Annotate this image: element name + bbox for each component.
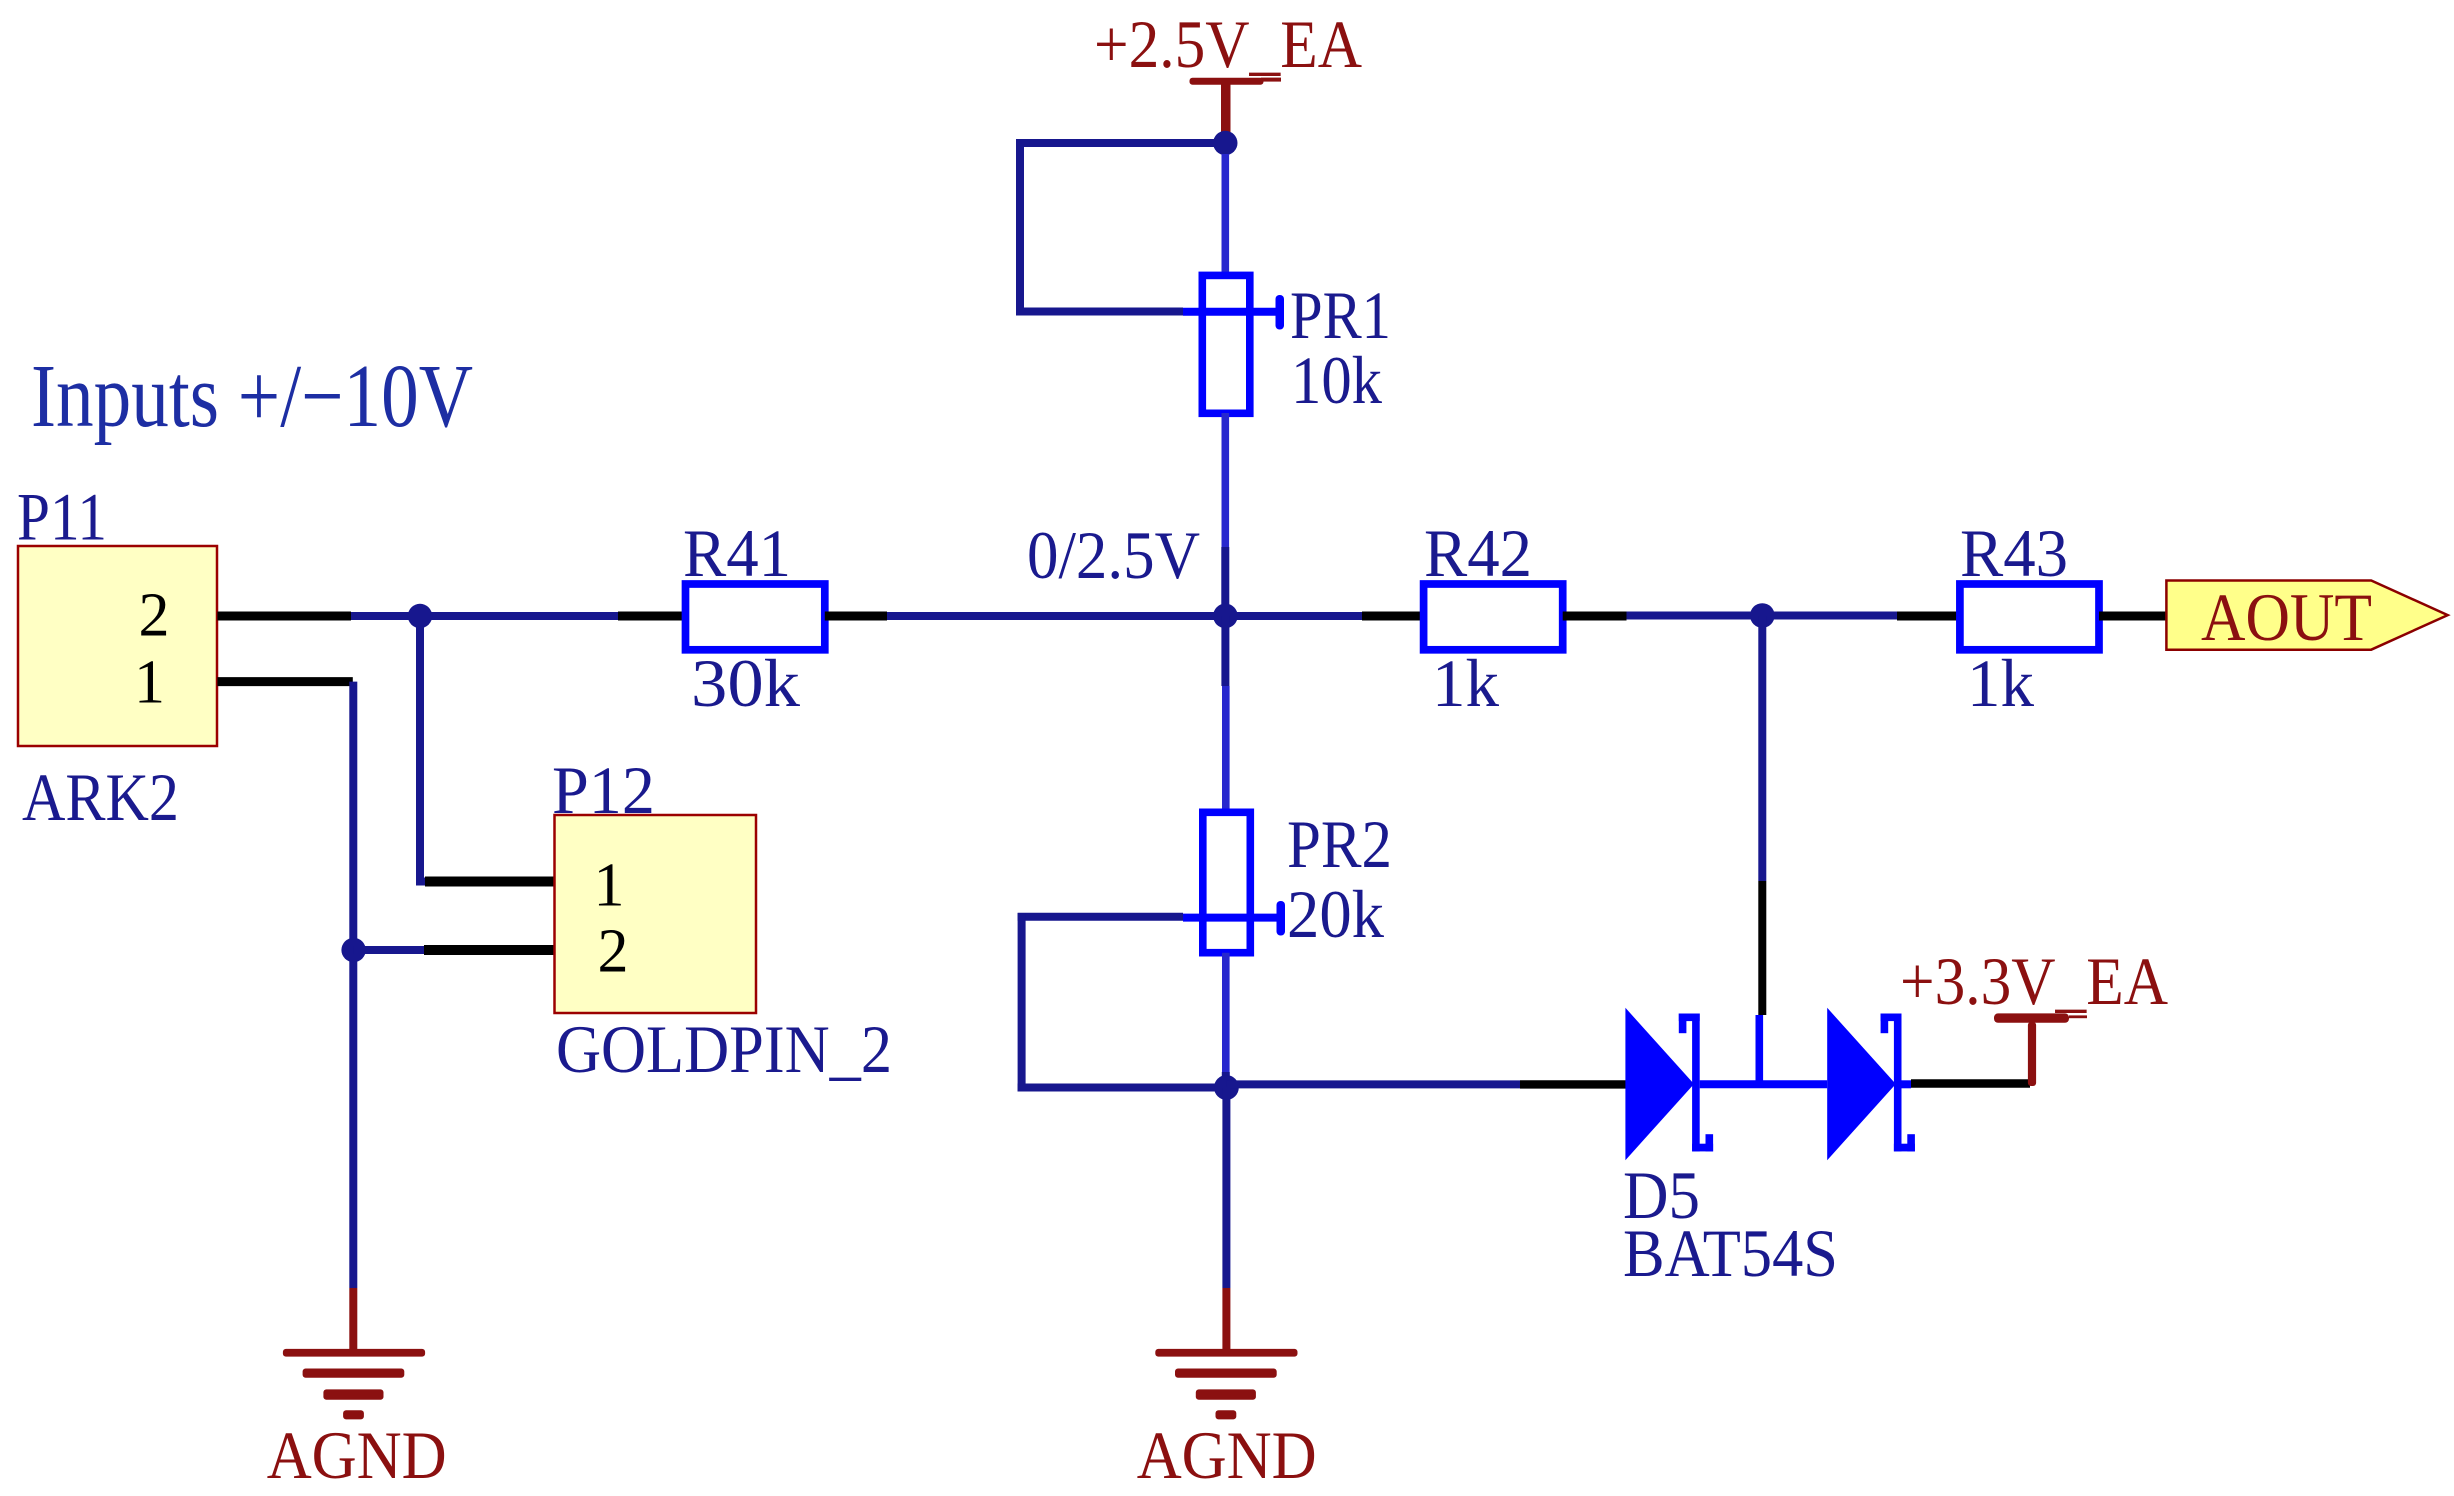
svg-text:P11: P11 <box>17 479 107 555</box>
P12 pin 2 stub <box>424 945 556 955</box>
wire wiper left <box>1018 913 1183 921</box>
junction top node <box>1213 131 1237 155</box>
potentiometer PR2 body <box>1203 812 1251 952</box>
svg-text:1: 1 <box>594 852 625 920</box>
svg-text:2: 2 <box>598 918 629 986</box>
wire PR1 to center node <box>1221 547 1229 616</box>
power +3.3V_EA bar symbol <box>1994 1013 2087 1086</box>
junction node B <box>341 938 365 962</box>
wire node C to R43 <box>1762 612 1897 620</box>
wire node A down <box>416 616 424 882</box>
ground AGND center symbol <box>1155 1288 1297 1419</box>
P11 pin 2 stub <box>217 612 351 621</box>
PR1 pin 2 (bottom) <box>1222 413 1230 547</box>
R43 pin stub left <box>1897 612 1961 621</box>
wire P11 pin2 to node A <box>351 612 618 620</box>
PR2 wiper <box>1183 901 1285 936</box>
P12 pin 1 stub <box>425 877 556 887</box>
D5 anode pin stub <box>1520 1080 1626 1088</box>
resistor R41 body <box>686 584 825 650</box>
wire node A to P12 pin1 <box>416 878 426 886</box>
wire center node down <box>1221 616 1229 686</box>
junction node A <box>408 604 432 628</box>
svg-text:AOUT: AOUT <box>2201 579 2372 655</box>
svg-text:30k: 30k <box>691 645 800 721</box>
diode D5 second element <box>1827 1008 1915 1160</box>
svg-text:R43: R43 <box>1960 515 2068 591</box>
svg-text:PR2: PR2 <box>1287 806 1392 882</box>
svg-text:+2.5V_EA: +2.5V_EA <box>1094 6 1362 82</box>
R42 pin stub left <box>1362 612 1425 621</box>
connector P12 body <box>555 815 757 1013</box>
svg-text:R42: R42 <box>1424 515 1532 591</box>
wire R42 to node C <box>1627 612 1764 620</box>
svg-text:0/2.5V: 0/2.5V <box>1027 517 1200 593</box>
PR2 pin 2 (bottom) <box>1222 953 1230 1072</box>
wire D5 to +3.3V_EA <box>1911 1079 2030 1087</box>
svg-text:1k: 1k <box>1967 645 2034 721</box>
wire wiper loop bottom <box>1018 1084 1227 1092</box>
svg-text:1: 1 <box>134 649 165 717</box>
svg-text:1k: 1k <box>1432 645 1499 721</box>
wire loop top horizontal <box>1016 139 1225 147</box>
PR1 wiper <box>1183 295 1284 330</box>
PR1 pin 1 (top) <box>1222 154 1230 276</box>
resistor R43 body <box>1960 584 2099 650</box>
junction node C <box>1750 603 1775 628</box>
wire node B to P12 pin2 <box>354 946 425 954</box>
diode D5 first element <box>1625 1008 1713 1160</box>
R43 pin stub right <box>2099 612 2167 621</box>
wire wiper loop vertical <box>1018 913 1026 1092</box>
ground AGND left symbol <box>283 1288 425 1419</box>
wire R41 to center node <box>887 612 1226 620</box>
wire loop left vertical <box>1016 139 1024 316</box>
connector P11 body <box>18 546 217 746</box>
svg-text:2: 2 <box>139 582 170 650</box>
potentiometer PR1 body <box>1202 275 1250 413</box>
svg-text:AGND: AGND <box>267 1417 447 1493</box>
wire node C down to D5 middle <box>1759 616 1762 1085</box>
resistor R42 body <box>1424 584 1563 650</box>
svg-text:10k: 10k <box>1291 342 1382 418</box>
wire node D to center AGND <box>1222 1088 1230 1289</box>
wire between D5 diodes <box>1700 1080 1828 1088</box>
port AOUT flag <box>2166 581 2447 650</box>
svg-text:GOLDPIN_2: GOLDPIN_2 <box>556 1011 892 1087</box>
wire center node to R42 <box>1226 612 1362 620</box>
svg-text:R41: R41 <box>683 515 791 591</box>
wire node D to diode D5 <box>1226 1080 1520 1088</box>
svg-text:Inputs +/−10V: Inputs +/−10V <box>31 347 473 446</box>
P11 pin 1 stub <box>217 677 352 686</box>
R42 pin stub right <box>1563 612 1627 621</box>
svg-text:+3.3V_EA: +3.3V_EA <box>1900 943 2168 1019</box>
wire PR2 to node D <box>1222 1072 1230 1088</box>
svg-text:20k: 20k <box>1287 876 1384 952</box>
svg-text:AGND: AGND <box>1137 1417 1317 1493</box>
R41 pin stub left <box>618 612 687 621</box>
svg-text:BAT54S: BAT54S <box>1623 1215 1838 1291</box>
svg-text:ARK2: ARK2 <box>22 759 179 835</box>
D5 cathode stub <box>1902 1080 1912 1088</box>
wire P11 pin1 down to AGND <box>349 682 357 1288</box>
power +2.5V_EA bar symbol <box>1190 78 1282 133</box>
junction center node 0/2.5V <box>1213 604 1238 629</box>
R41 pin stub right <box>825 612 887 621</box>
wire loop bottom horizontal <box>1016 308 1183 316</box>
junction node D <box>1214 1075 1239 1100</box>
PR2 pin 1 (top) <box>1222 686 1230 813</box>
